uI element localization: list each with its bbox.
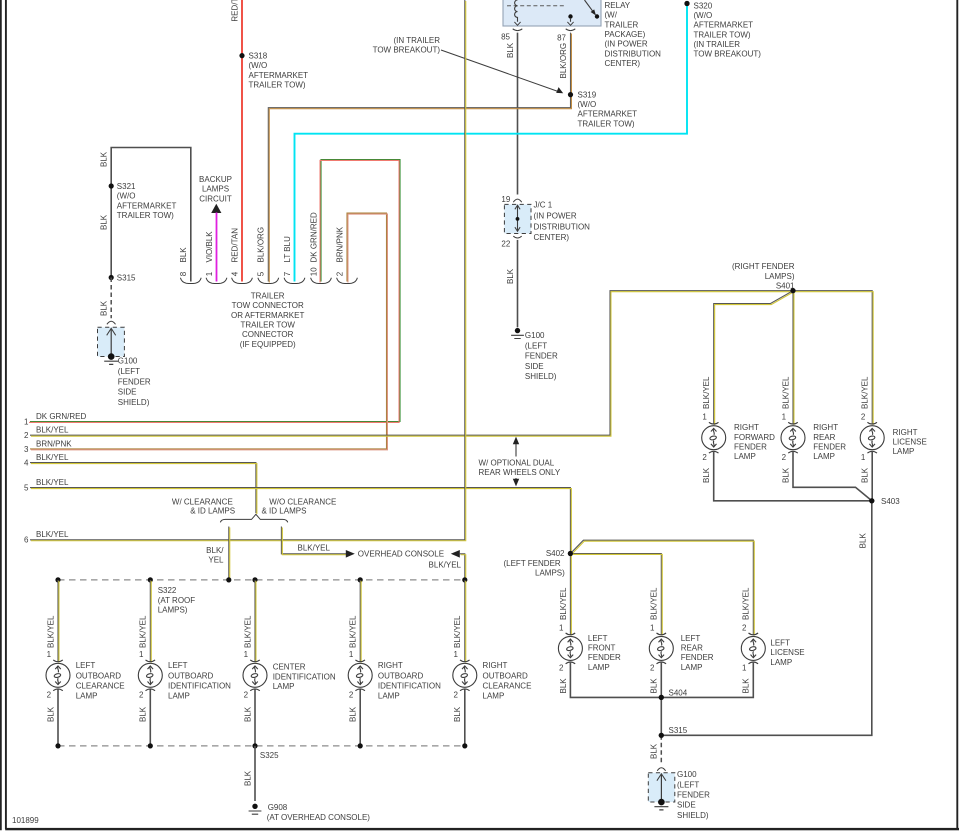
splice S402: [503, 549, 573, 577]
svg-text:CENTER): CENTER): [534, 233, 570, 242]
svg-text:(W/O: (W/O: [694, 11, 713, 20]
svg-text:LAMP: LAMP: [483, 692, 505, 701]
relay switch: [567, 0, 599, 25]
relay pin 87: [557, 29, 575, 43]
svg-text:S318: S318: [249, 52, 268, 61]
wire BLK left front fender lamp to S404: [559, 663, 662, 698]
lamp left front fender lamp: [558, 633, 621, 672]
svg-text:FENDER: FENDER: [681, 653, 714, 662]
svg-text:TRAILER: TRAILER: [251, 292, 285, 301]
svg-text:BLK: BLK: [861, 467, 870, 483]
svg-text:IDENTIFICATION: IDENTIFICATION: [273, 672, 336, 681]
svg-text:2: 2: [559, 664, 564, 673]
svg-text:OUTBOARD: OUTBOARD: [378, 671, 424, 680]
bus junction at 360.2: [358, 577, 363, 582]
svg-text:BLK: BLK: [100, 300, 109, 316]
svg-text:TRAILER TOW): TRAILER TOW): [117, 211, 174, 220]
svg-text:DISTRIBUTION: DISTRIBUTION: [605, 49, 662, 58]
trailer tow connector (pins 8,1,4,5,7,10,2): [179, 247, 357, 284]
svg-text:S322: S322: [158, 586, 177, 595]
svg-text:BLK: BLK: [506, 42, 515, 58]
svg-text:2: 2: [782, 453, 787, 462]
wire BLK dashed S315 to G100: [650, 735, 662, 762]
svg-text:YEL: YEL: [208, 555, 224, 564]
svg-text:2: 2: [24, 431, 29, 440]
svg-text:2: 2: [47, 691, 52, 700]
svg-text:LAMPS): LAMPS): [765, 272, 795, 281]
svg-text:BLK/ORG: BLK/ORG: [559, 43, 568, 79]
splice S320: [684, 1, 761, 59]
relay label: [605, 1, 662, 68]
svg-text:(LEFT FENDER: (LEFT FENDER: [503, 559, 560, 568]
svg-text:LAMP: LAMP: [273, 682, 295, 691]
svg-text:85: 85: [501, 33, 510, 42]
svg-text:TOW CONNECTOR: TOW CONNECTOR: [232, 301, 304, 310]
wire BLK right outboard clearance lamp to S325 bus: [453, 690, 465, 746]
splice S315 (left): [109, 274, 136, 283]
node 2 (BLK/YEL): [24, 426, 69, 441]
ground bus S325 (dashed): [58, 745, 465, 747]
svg-text:LEFT: LEFT: [168, 661, 188, 670]
wire BLK left outboard identification lamp to S325 bus: [139, 690, 151, 746]
lamp right rear fender lamp: [781, 422, 846, 461]
node 3 (BRN/PNK): [24, 439, 72, 454]
svg-text:AFTERMARKET: AFTERMARKET: [117, 201, 177, 210]
arrow to overhead console: [346, 550, 444, 559]
svg-text:(W/O: (W/O: [578, 100, 597, 109]
wire BLK left rear fender lamp to S404: [650, 663, 662, 698]
wire BLK/YEL circuit 2 to S401: [30, 291, 794, 436]
wire BLK/YEL circuit 6: [30, 0, 466, 541]
wire BLK/YEL circuit 4 to brace: [30, 463, 257, 514]
lamp left license lamp: [741, 633, 804, 667]
roof lamp bus (dashed): [58, 579, 465, 581]
wire BLK/YEL bus to right outboard clearance lamp: [453, 580, 466, 663]
wire RED/TAN to connector pin4: [231, 0, 243, 281]
wire BLK left license lamp to S404: [661, 663, 753, 698]
backup lamps circuit label and arrow: [199, 175, 232, 213]
wire BLK right license lamp to S403: [861, 452, 873, 501]
arrow from overhead console: [429, 550, 466, 581]
wire BLK/YEL bus to center identification lamp: [243, 580, 256, 663]
svg-text:LICENSE: LICENSE: [893, 438, 927, 447]
svg-text:BLK: BLK: [702, 467, 711, 483]
svg-text:LAMP: LAMP: [893, 447, 915, 456]
sheet number: [12, 816, 39, 825]
svg-text:BLK: BLK: [742, 678, 751, 694]
svg-text:BLK: BLK: [453, 706, 462, 722]
wire BLK J/C1 to G100: [517, 240, 519, 327]
svg-text:BLK/YEL: BLK/YEL: [781, 376, 790, 409]
bus junction at 255,746: [252, 743, 257, 748]
svg-text:LT BLU: LT BLU: [283, 236, 292, 263]
svg-text:AFTERMARKET: AFTERMARKET: [578, 110, 638, 119]
svg-text:(W/: (W/: [605, 11, 618, 20]
node 1 (DK GRN/RED): [24, 412, 86, 427]
svg-text:TRAILER TOW): TRAILER TOW): [249, 81, 306, 90]
svg-text:SHIELD): SHIELD): [118, 398, 150, 407]
alternative-path brace: [220, 514, 287, 522]
svg-text:BLK: BLK: [781, 467, 790, 483]
wire BLK center identification lamp to S325 bus: [243, 690, 255, 746]
svg-text:BACKUP: BACKUP: [199, 175, 232, 184]
svg-text:BLK: BLK: [559, 678, 568, 694]
svg-text:87: 87: [557, 33, 566, 42]
svg-text:1: 1: [782, 412, 787, 421]
svg-text:OVERHEAD CONSOLE: OVERHEAD CONSOLE: [358, 550, 444, 559]
wire BLK left outboard clearance lamp to S325 bus: [46, 690, 58, 746]
svg-text:BLK/YEL: BLK/YEL: [46, 615, 55, 648]
svg-text:TRAILER TOW): TRAILER TOW): [578, 119, 635, 128]
svg-text:2: 2: [650, 664, 655, 673]
splice S321: [109, 182, 177, 220]
svg-text:BLK/YEL: BLK/YEL: [36, 453, 69, 462]
bus junction at 255: [252, 577, 257, 582]
svg-text:G100: G100: [677, 770, 697, 779]
svg-text:(AT OVERHEAD CONSOLE): (AT OVERHEAD CONSOLE): [267, 813, 371, 822]
svg-text:2: 2: [139, 691, 144, 700]
svg-text:BLK/YEL: BLK/YEL: [36, 426, 69, 435]
label (in trailer tow breakout) with arrow to S319: [373, 36, 564, 93]
wire BLK S325 to G908: [243, 746, 255, 801]
splice junction dots overlay (S320, S401, S402, S403, S404, S315): [568, 1, 875, 738]
splice S325: [260, 751, 279, 760]
svg-text:BLK/: BLK/: [206, 546, 224, 555]
wire BLK/ORG relay pin87 to connector pin5: [268, 33, 571, 283]
svg-text:LEFT: LEFT: [588, 634, 608, 643]
bus junction at 58,746: [55, 743, 60, 748]
svg-text:SIDE: SIDE: [677, 801, 696, 810]
svg-text:BLK: BLK: [179, 247, 188, 263]
svg-text:RED/TAN: RED/TAN: [231, 0, 240, 22]
svg-text:S402: S402: [546, 549, 565, 558]
wire BLK right outboard identification lamp to S325 bus: [349, 690, 361, 746]
wire BLK/YEL circuit 5 to S402: [30, 488, 571, 555]
svg-text:LAMP: LAMP: [681, 663, 703, 672]
svg-text:RED/TAN: RED/TAN: [230, 228, 239, 263]
wire BRN/PNK connector pin2 to circuit 3: [30, 213, 387, 450]
wire BLK/YEL bus to left outboard clearance lamp: [46, 580, 59, 663]
wire BLK right forward fender lamp to S403: [702, 452, 872, 501]
svg-text:CENTER: CENTER: [273, 662, 306, 671]
connector wire labels: [205, 212, 345, 262]
svg-text:FENDER: FENDER: [525, 352, 558, 361]
svg-text:IDENTIFICATION: IDENTIFICATION: [378, 682, 441, 691]
svg-text:& ID LAMPS: & ID LAMPS: [262, 507, 307, 516]
svg-text:TOW BREAKOUT): TOW BREAKOUT): [694, 50, 762, 59]
svg-text:BLK: BLK: [139, 706, 148, 722]
svg-text:S315: S315: [117, 274, 136, 283]
svg-text:LAMPS): LAMPS): [158, 605, 188, 614]
svg-text:BRN/PNK: BRN/PNK: [36, 439, 72, 448]
svg-text:8: 8: [179, 271, 188, 276]
svg-text:LAMPS: LAMPS: [202, 185, 229, 194]
label w/o clearance & id lamps: [262, 497, 337, 515]
wire BLK/YEL S401 to right rear fender lamp: [781, 291, 794, 425]
svg-text:BLK/YEL: BLK/YEL: [349, 615, 358, 648]
lamp left outboard clearance lamp: [46, 660, 125, 701]
ground G100 (left fender side shield) box: [98, 321, 151, 407]
svg-text:CLEARANCE: CLEARANCE: [76, 682, 125, 691]
wire BLK/YEL brace left branch to roof-lamp bus: [206, 527, 230, 581]
svg-text:1: 1: [349, 650, 354, 659]
svg-text:1: 1: [453, 650, 458, 659]
svg-text:RIGHT: RIGHT: [893, 428, 918, 437]
svg-text:6: 6: [24, 536, 29, 545]
bus junction at 360.2,746: [358, 743, 363, 748]
splice S403: [869, 497, 900, 506]
svg-text:BLK: BLK: [650, 678, 659, 694]
wire BLK/YEL S401 to right license lamp: [793, 291, 873, 425]
lamp center identification lamp: [243, 660, 336, 691]
bus junction at 58: [55, 577, 60, 582]
svg-text:RELAY: RELAY: [605, 1, 631, 10]
bus junction at 464.8,746: [462, 743, 467, 748]
svg-text:OUTBOARD: OUTBOARD: [168, 671, 214, 680]
svg-text:BLK/YEL: BLK/YEL: [139, 615, 148, 648]
svg-text:4: 4: [230, 271, 239, 276]
svg-text:CIRCUIT: CIRCUIT: [199, 194, 232, 203]
svg-text:1: 1: [139, 650, 144, 659]
svg-text:BLK: BLK: [243, 770, 252, 786]
svg-text:G100: G100: [525, 331, 545, 340]
svg-text:SHIELD): SHIELD): [677, 811, 709, 820]
svg-text:G100: G100: [118, 357, 138, 366]
svg-text:LAMP: LAMP: [168, 692, 190, 701]
lamp right outboard clearance lamp: [453, 660, 532, 701]
label w/ optional dual rear wheels only: [479, 437, 561, 487]
svg-text:RIGHT: RIGHT: [813, 423, 838, 432]
svg-text:2: 2: [861, 412, 866, 421]
svg-text:BLK/YEL: BLK/YEL: [650, 587, 659, 620]
svg-text:1: 1: [742, 664, 747, 673]
node 5 (BLK/YEL): [24, 478, 69, 493]
svg-text:REAR: REAR: [813, 433, 835, 442]
svg-text:TRAILER TOW): TRAILER TOW): [694, 30, 751, 39]
ground G908: [249, 803, 371, 822]
svg-text:BLK/YEL: BLK/YEL: [36, 478, 69, 487]
bus junction at 150.3,746: [148, 743, 153, 748]
svg-text:LEFT: LEFT: [76, 661, 96, 670]
svg-text:BLK: BLK: [650, 743, 659, 759]
svg-text:FRONT: FRONT: [588, 644, 616, 653]
splice S322: [158, 586, 196, 614]
svg-text:S321: S321: [117, 182, 136, 191]
svg-text:TRAILER: TRAILER: [605, 20, 639, 29]
lamp left outboard identification lamp: [138, 660, 231, 701]
svg-text:(W/O: (W/O: [117, 192, 136, 201]
splice S401: [732, 262, 796, 293]
svg-text:7: 7: [283, 271, 292, 276]
svg-text:FORWARD: FORWARD: [734, 433, 775, 442]
svg-text:BLK: BLK: [506, 268, 515, 284]
svg-text:OUTBOARD: OUTBOARD: [76, 671, 122, 680]
svg-text:1: 1: [244, 650, 249, 659]
svg-text:2: 2: [702, 453, 707, 462]
svg-text:2: 2: [335, 271, 344, 276]
svg-text:LAMP: LAMP: [378, 692, 400, 701]
wire BLK/YEL brace right branch to overhead console: [281, 527, 347, 555]
wire VIO/BLK to connector pin1: [216, 213, 218, 282]
svg-text:IDENTIFICATION: IDENTIFICATION: [168, 682, 231, 691]
svg-text:BLK/YEL: BLK/YEL: [861, 376, 870, 409]
node 4 (BLK/YEL): [24, 453, 69, 468]
svg-text:BLK: BLK: [46, 706, 55, 722]
svg-text:BLK: BLK: [100, 151, 109, 167]
bus junction at 150.3: [148, 577, 153, 582]
svg-text:FENDER: FENDER: [677, 791, 710, 800]
svg-text:J/C 1: J/C 1: [534, 201, 553, 210]
svg-text:5: 5: [257, 271, 266, 276]
svg-text:BLK: BLK: [100, 214, 109, 230]
wire BLK S404 to S315: [660, 697, 662, 735]
svg-text:S320: S320: [694, 1, 713, 10]
svg-text:BLK/YEL: BLK/YEL: [36, 530, 69, 539]
svg-text:& ID LAMPS: & ID LAMPS: [190, 507, 235, 516]
connector name label: [231, 292, 304, 349]
wire BLK relay pin85 to J/C1: [506, 33, 518, 284]
lamp right license lamp: [860, 422, 927, 456]
svg-text:2: 2: [453, 691, 458, 700]
svg-text:(IF EQUIPPED): (IF EQUIPPED): [240, 340, 296, 349]
svg-text:1: 1: [650, 623, 655, 632]
svg-text:DISTRIBUTION: DISTRIBUTION: [534, 222, 591, 231]
svg-text:LICENSE: LICENSE: [770, 648, 804, 657]
svg-text:CENTER): CENTER): [605, 59, 641, 68]
svg-text:W/O CLEARANCE: W/O CLEARANCE: [269, 497, 336, 506]
svg-text:LEFT: LEFT: [770, 639, 790, 648]
svg-text:2: 2: [742, 623, 747, 632]
svg-text:FENDER: FENDER: [118, 377, 151, 386]
svg-text:1: 1: [47, 650, 52, 659]
bus junction at 228.8: [226, 577, 231, 582]
lamp left rear fender lamp: [649, 633, 714, 672]
splice S318: [239, 52, 308, 90]
svg-text:LEFT: LEFT: [681, 634, 701, 643]
wire DK GRN/RED connector pin10 to circuit 1: [29, 160, 400, 423]
svg-text:1: 1: [24, 417, 29, 426]
splice S404: [659, 688, 688, 700]
svg-text:(LEFT: (LEFT: [118, 367, 140, 376]
svg-text:S325: S325: [260, 751, 279, 760]
svg-text:BLK/YEL: BLK/YEL: [298, 544, 331, 553]
svg-text:22: 22: [501, 240, 510, 249]
svg-text:TOW BREAKOUT): TOW BREAKOUT): [373, 46, 441, 55]
svg-text:BRN/PNK: BRN/PNK: [335, 226, 344, 262]
wire LT BLU S320 to connector pin7: [295, 4, 688, 282]
svg-text:101899: 101899: [12, 816, 39, 825]
svg-text:(IN POWER: (IN POWER: [605, 40, 648, 49]
svg-text:LAMP: LAMP: [588, 663, 610, 672]
relay U1 (w/ trailer package) box: [503, 0, 601, 26]
svg-text:REAR: REAR: [681, 644, 703, 653]
wire BLK/YEL S402 to left rear fender lamp: [570, 554, 662, 636]
relay pin 85: [501, 29, 522, 42]
svg-text:(IN TRAILER: (IN TRAILER: [393, 36, 440, 45]
svg-text:G908: G908: [268, 803, 288, 812]
svg-text:BLK/YEL: BLK/YEL: [559, 587, 568, 620]
svg-text:FENDER: FENDER: [813, 442, 846, 451]
svg-text:DK GRN/RED: DK GRN/RED: [309, 212, 318, 262]
svg-text:(RIGHT FENDER: (RIGHT FENDER: [732, 262, 795, 271]
svg-text:BLK/YEL: BLK/YEL: [742, 587, 751, 620]
wire BLK S403 to S315: [661, 501, 872, 736]
svg-text:S319: S319: [578, 90, 597, 99]
svg-text:REAR WHEELS ONLY: REAR WHEELS ONLY: [479, 468, 561, 477]
svg-text:1: 1: [205, 271, 214, 276]
svg-text:SIDE: SIDE: [525, 362, 544, 371]
svg-text:FENDER: FENDER: [588, 653, 621, 662]
svg-text:RIGHT: RIGHT: [734, 423, 759, 432]
svg-text:AFTERMARKET: AFTERMARKET: [249, 71, 309, 80]
svg-text:W/ OPTIONAL DUAL: W/ OPTIONAL DUAL: [479, 458, 555, 467]
wire BLK/YEL S402 to left license lamp: [570, 540, 754, 635]
svg-text:OUTBOARD: OUTBOARD: [483, 671, 529, 680]
svg-text:OR AFTERMARKET: OR AFTERMARKET: [231, 311, 304, 320]
svg-text:(AT ROOF: (AT ROOF: [158, 596, 196, 605]
svg-text:W/ CLEARANCE: W/ CLEARANCE: [172, 497, 233, 506]
lamp right outboard identification lamp: [348, 660, 441, 701]
svg-text:10: 10: [309, 267, 318, 276]
svg-text:RIGHT: RIGHT: [378, 661, 403, 670]
splice S315 (right): [659, 726, 688, 738]
svg-text:S404: S404: [669, 688, 688, 697]
svg-text:2: 2: [244, 691, 249, 700]
svg-text:AFTERMARKET: AFTERMARKET: [694, 21, 754, 30]
svg-text:LAMP: LAMP: [76, 692, 98, 701]
wire BLK/YEL bus to right outboard identification lamp: [349, 580, 362, 663]
svg-text:LAMP: LAMP: [813, 452, 835, 461]
svg-text:(W/O: (W/O: [249, 61, 268, 70]
svg-text:(LEFT: (LEFT: [525, 341, 547, 350]
svg-text:(IN POWER: (IN POWER: [534, 211, 577, 220]
svg-text:RIGHT: RIGHT: [483, 661, 508, 670]
svg-text:LAMP: LAMP: [734, 452, 756, 461]
wire BLK/YEL S401 to right forward fender lamp: [702, 291, 794, 425]
svg-text:1: 1: [861, 453, 866, 462]
relay coil: [514, 0, 520, 25]
junction connector J/C 1: [501, 195, 590, 249]
bus junction at 464.8: [462, 577, 467, 582]
node 6 (BLK/YEL): [24, 530, 69, 545]
svg-text:PACKAGE): PACKAGE): [605, 30, 646, 39]
svg-text:BLK: BLK: [243, 706, 252, 722]
svg-text:BLK: BLK: [859, 533, 868, 549]
svg-text:CONNECTOR: CONNECTOR: [242, 330, 294, 339]
svg-text:SIDE: SIDE: [118, 388, 137, 397]
wire BLK connector pin8 to S321/S315: [100, 148, 191, 282]
svg-text:BLK/YEL: BLK/YEL: [453, 615, 462, 648]
wire BLK/YEL bus to left outboard identification lamp: [139, 580, 152, 663]
svg-text:S315: S315: [669, 726, 688, 735]
svg-text:BLK: BLK: [349, 706, 358, 722]
ground G100 (left fender side shield) center: [511, 328, 558, 381]
label w/ clearance & id lamps: [172, 497, 235, 515]
svg-text:LAMP: LAMP: [770, 658, 792, 667]
svg-text:DK GRN/RED: DK GRN/RED: [36, 412, 86, 421]
lamp right forward fender lamp: [702, 422, 775, 461]
svg-text:FENDER: FENDER: [734, 442, 767, 451]
wire BLK dashed S315 to G100: [100, 278, 112, 319]
svg-text:(LEFT: (LEFT: [677, 780, 699, 789]
svg-text:SHIELD): SHIELD): [525, 372, 557, 381]
svg-text:BLK/YEL: BLK/YEL: [702, 376, 711, 409]
svg-text:BLK/ORG: BLK/ORG: [257, 227, 266, 263]
svg-text:3: 3: [24, 445, 29, 454]
svg-text:5: 5: [24, 484, 29, 493]
svg-text:1: 1: [702, 412, 707, 421]
svg-text:CLEARANCE: CLEARANCE: [483, 682, 532, 691]
